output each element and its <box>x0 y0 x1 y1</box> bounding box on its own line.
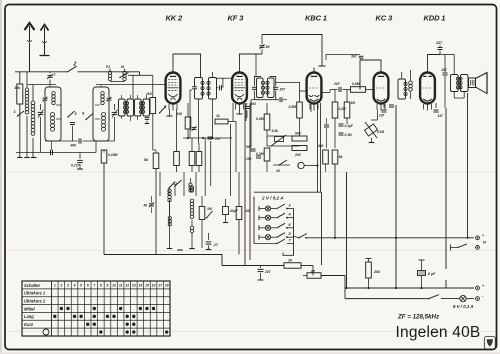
C circle symbol <box>298 162 304 168</box>
switch under M <box>120 73 129 78</box>
BF2 trimmer on edge <box>107 98 112 101</box>
small transformer TS1 form b <box>127 99 134 116</box>
svg-text:ZF = 128,5kHz: ZF = 128,5kHz <box>397 314 440 321</box>
resistor r4 under mixer <box>189 152 195 166</box>
wire x210.7 down <box>210 141 212 186</box>
rail drops to y152.5 <box>51 141 53 150</box>
svg-text:207: 207 <box>264 270 272 274</box>
svg-text:8: 8 <box>100 284 102 288</box>
output transformer T4 coil b <box>461 75 469 92</box>
panel lamp 8 <box>258 235 260 240</box>
IF transformer T2 bobbin b <box>268 78 275 98</box>
resistor 200 <box>292 146 307 151</box>
resistor 5k kc3 <box>332 150 338 164</box>
terminal plus <box>476 286 480 290</box>
tube KF3 <box>232 73 247 104</box>
wire y75.3 <box>128 74 153 76</box>
svg-text:337: 337 <box>436 41 443 45</box>
cap 137 kdd <box>435 103 437 108</box>
anode wire KK2 <box>173 54 201 78</box>
resistor 5k left <box>153 153 159 169</box>
small coil bottom <box>189 183 192 186</box>
svg-text:18: 18 <box>165 284 169 288</box>
long wire x346.5 <box>346 172 348 288</box>
switch S10 <box>273 164 290 166</box>
coupling transformer T3 coil a <box>398 79 406 99</box>
svg-text:Kurz: Kurz <box>24 322 34 327</box>
svg-text:KDD 1: KDD 1 <box>424 14 446 23</box>
svg-text:12: 12 <box>125 284 129 288</box>
svg-text:600: 600 <box>295 132 301 136</box>
antenna A1 <box>29 26 31 72</box>
resistor 1M kc3 <box>344 102 350 118</box>
caps 500 100 <box>251 148 256 150</box>
resistor r5 under mixer <box>196 152 202 166</box>
resistor 1k5 with switch S5 <box>152 75 154 97</box>
resistor 600 <box>292 136 307 141</box>
wire x236 from 1k <box>235 122 237 173</box>
terminal N <box>476 236 480 240</box>
heater wire xb <box>249 103 251 155</box>
osc vertical feeds <box>183 172 185 196</box>
T1 cap right <box>219 85 221 90</box>
T2 down leads <box>250 100 252 147</box>
tube KDD1 <box>420 73 435 104</box>
band switch table <box>22 281 170 336</box>
IF transformer T1 coil a <box>195 78 203 100</box>
resistor 0,15M <box>103 150 105 153</box>
svg-text:9: 9 <box>107 284 109 288</box>
KF3 cathode lead bar <box>239 110 241 115</box>
svg-text:1M: 1M <box>207 207 212 211</box>
anode wire KF3 <box>240 54 263 68</box>
svg-text:207: 207 <box>441 68 448 72</box>
svg-text:0,2M: 0,2M <box>256 152 264 156</box>
svg-text:16: 16 <box>152 284 156 288</box>
BF1 tap wires <box>56 104 61 106</box>
svg-text:Schalter: Schalter <box>24 283 41 288</box>
switch row y247.4 <box>450 245 452 251</box>
svg-text:0,1M: 0,1M <box>377 130 384 134</box>
BF1 winding upper <box>52 92 56 96</box>
coupling coil L2 <box>32 85 34 102</box>
T2 right loop with cap <box>270 76 276 86</box>
cap 207 kdd <box>443 72 448 74</box>
junction row y138 <box>187 137 189 139</box>
svg-text:46: 46 <box>143 204 148 208</box>
cap 0,1 kbc right <box>324 124 329 126</box>
ground under L1 <box>24 157 30 159</box>
cap 0,27 osc <box>208 233 210 240</box>
wire y78.2 to KF3 <box>217 77 232 79</box>
cap 137 kc3 <box>383 103 385 108</box>
panel lamp 4 <box>258 215 260 220</box>
scan fold line 3 <box>5 330 496 332</box>
T4 bottom leads <box>453 92 455 99</box>
wire kbc grid <box>300 90 307 92</box>
svg-text:4: 4 <box>73 284 76 288</box>
caps stack kc3 <box>339 123 344 125</box>
T1 cap left <box>193 86 197 89</box>
wire x230.5 down <box>230 124 232 196</box>
cap 0,727 <box>79 153 81 159</box>
svg-text:10: 10 <box>288 259 292 263</box>
cap 100 kf3 <box>245 106 250 108</box>
lamp panel collector <box>293 209 295 249</box>
svg-text:KBC 1: KBC 1 <box>305 14 327 23</box>
svg-text:6,5k: 6,5k <box>272 129 280 133</box>
svg-text:0,2M: 0,2M <box>339 107 346 111</box>
svg-text:137: 137 <box>438 114 444 118</box>
svg-text:10: 10 <box>276 169 280 173</box>
trimmer to ground small <box>145 117 150 119</box>
svg-text:KC 3: KC 3 <box>376 14 393 23</box>
rail y237.8 to N terminal <box>306 237 474 239</box>
switch S12 <box>169 182 175 189</box>
svg-text:KF 3: KF 3 <box>228 14 245 23</box>
vertical wire x245 <box>244 155 246 265</box>
svg-text:Ingelen 40B: Ingelen 40B <box>396 324 481 341</box>
svg-text:10k: 10k <box>14 86 21 90</box>
svg-text:Mittel: Mittel <box>24 306 36 311</box>
small transformer TS2 form b <box>143 99 150 116</box>
svg-text:2: 2 <box>59 284 62 288</box>
wire mixer grid <box>96 84 165 86</box>
svg-text:11: 11 <box>119 284 123 288</box>
resistor r3 under mixer <box>174 152 180 166</box>
svg-text:2 V / 0,2 A: 2 V / 0,2 A <box>261 196 284 201</box>
osc resistor 0,5M <box>199 207 205 220</box>
svg-text:0,1M: 0,1M <box>345 133 352 137</box>
IF transformer T2 bobbin a <box>257 78 264 98</box>
resistor 0,5M horizontal <box>351 87 366 93</box>
KC3 pot feed wire <box>377 110 379 121</box>
long wire x396 <box>395 105 397 288</box>
svg-text:10: 10 <box>112 284 116 288</box>
resistor 400 <box>323 150 329 164</box>
terminal minus <box>476 297 480 301</box>
coupling transformer T3 coil b <box>409 81 413 85</box>
svg-text:0,15M: 0,15M <box>108 153 118 157</box>
svg-text:+: + <box>482 284 484 288</box>
vertical wire x250 <box>249 155 251 260</box>
svg-text:100: 100 <box>177 112 183 116</box>
band filter BF1 loop <box>45 87 61 141</box>
rail junction dots <box>345 287 347 289</box>
cap 200 psu mid <box>260 266 262 268</box>
panel switch 7 <box>254 243 277 245</box>
resistor 80 psu <box>312 266 314 276</box>
potentiometer 0,1M kc3 <box>364 124 377 136</box>
svg-text:80: 80 <box>311 270 315 274</box>
resistor k under KK2 <box>187 103 189 117</box>
svg-text:8 V / 0,1 A: 8 V / 0,1 A <box>453 304 474 309</box>
cap right kc3 <box>389 104 394 106</box>
long wire x360 <box>359 60 361 90</box>
T2 bottom rail <box>254 99 279 101</box>
switch S1 <box>18 111 25 116</box>
variable capacitor C2 <box>114 104 116 110</box>
resistor 10 psu <box>222 265 284 267</box>
panel bottom hook <box>283 248 294 255</box>
svg-text:207: 207 <box>279 88 287 92</box>
svg-text:207: 207 <box>333 82 341 86</box>
filter bottom rail y141 <box>45 140 78 142</box>
antenna coil L1 <box>26 72 28 88</box>
wires kbc mesh <box>267 145 300 147</box>
cap on bottom wire <box>50 150 52 155</box>
svg-text:207: 207 <box>214 137 222 141</box>
resistor 0,5M kbc <box>297 102 303 118</box>
tube KK2 <box>166 73 181 104</box>
anode wire KDD1 <box>428 55 441 68</box>
small transformer TS1 form a <box>119 99 126 116</box>
cap 207 mixer <box>208 136 213 138</box>
wire top kbc <box>262 35 322 67</box>
svg-text:0,2M: 0,2M <box>256 117 264 121</box>
svg-text:Ultrakurz 1: Ultrakurz 1 <box>24 291 46 296</box>
svg-text:1: 1 <box>54 284 56 288</box>
svg-text:40μF: 40μF <box>229 209 239 213</box>
lamp panel frame wires <box>253 197 255 244</box>
IF transformer T1 coil b <box>209 78 217 100</box>
small transformer TS2 form a <box>135 99 142 116</box>
BF1 winding lower <box>51 113 55 117</box>
resistor 0,2M a <box>264 114 270 130</box>
resistor 10k <box>19 72 21 84</box>
panel right switch <box>294 236 300 238</box>
heater wire xa <box>244 103 246 155</box>
panel lamp 6 <box>258 225 260 230</box>
capacitor 8uF <box>421 260 423 270</box>
svg-text:0,5M: 0,5M <box>289 105 297 109</box>
switch S2 <box>68 66 77 72</box>
ground under 10k <box>17 157 23 159</box>
long wire x467 <box>467 93 469 238</box>
kbc vertical wires <box>317 103 319 192</box>
osc coil chain 2 <box>190 186 193 189</box>
svg-text:200: 200 <box>294 153 301 157</box>
rail y298.6 minus <box>344 288 346 299</box>
resistor 200 psu <box>368 259 370 263</box>
svg-text:400: 400 <box>70 144 77 148</box>
switch S5 blade <box>160 106 167 113</box>
top bus wire <box>15 71 67 73</box>
svg-text:50: 50 <box>266 45 270 49</box>
resistor 0,2M b <box>264 148 270 161</box>
speaker <box>469 78 476 88</box>
band filter BF2 loop <box>93 87 109 141</box>
svg-text:0,5M: 0,5M <box>352 82 360 86</box>
oscillator switch S11 <box>175 180 182 186</box>
svg-text:8 μF: 8 μF <box>428 272 436 276</box>
switch S4 <box>86 114 93 120</box>
resistor 100 osc <box>236 207 242 220</box>
svg-text:1M: 1M <box>351 101 356 105</box>
BF1 trimmer on edge <box>43 98 48 101</box>
svg-text:N: N <box>483 240 486 245</box>
svg-text:Lang: Lang <box>24 314 34 319</box>
svg-text:100: 100 <box>251 102 257 106</box>
scan fold line 2 <box>5 250 496 252</box>
electrolytic 40uF <box>223 207 229 215</box>
wire bus corner down <box>139 72 141 76</box>
wire horiz 84.5 <box>27 84 56 86</box>
variable capacitor C1 <box>40 104 42 110</box>
antenna A2 <box>44 27 46 56</box>
svg-text:13: 13 <box>132 284 136 288</box>
svg-text:15: 15 <box>145 284 149 288</box>
long wire x446 <box>445 108 447 269</box>
svg-text:1k5: 1k5 <box>146 92 152 96</box>
bottom wire y152.5 <box>16 152 96 154</box>
panel lamp 2 <box>258 206 260 211</box>
svg-text:500: 500 <box>246 145 252 149</box>
scan fold line 1 <box>5 171 496 173</box>
BF2 winding upper <box>101 92 105 96</box>
osc coil chain 1 <box>168 189 171 192</box>
svg-text:Ultrakurz 2: Ultrakurz 2 <box>24 299 46 304</box>
svg-text:0,1μF: 0,1μF <box>345 124 354 128</box>
svg-text:F2: F2 <box>106 65 110 69</box>
wire x133 <box>132 75 134 99</box>
resistor 1k horizontal <box>215 119 228 124</box>
trimmer 50 <box>261 49 263 54</box>
svg-text:200: 200 <box>373 270 380 274</box>
rail y288 plus <box>345 287 474 289</box>
wire y54 right <box>326 54 360 56</box>
small trimmer mixer <box>192 127 197 129</box>
svg-text:100: 100 <box>246 157 252 161</box>
ground 0,727 <box>77 168 83 170</box>
wire x205 down <box>204 138 206 196</box>
T1 bottom leads <box>198 99 200 143</box>
dial lamp <box>460 295 466 301</box>
T2 grid wire right <box>276 81 294 83</box>
anode wire KC3 up <box>360 60 381 68</box>
svg-text:+: + <box>482 234 484 238</box>
wire KF3 cathode <box>232 103 234 121</box>
svg-text:3: 3 <box>67 284 69 288</box>
svg-text:137: 137 <box>379 114 385 118</box>
svg-text:0,727: 0,727 <box>71 164 81 168</box>
resistor 0,2M kc3 <box>332 102 338 118</box>
mid cap to ground <box>70 122 75 124</box>
tube KC3 <box>374 73 389 104</box>
tube KBC1 <box>307 73 322 104</box>
osc switch 1M <box>207 211 213 218</box>
svg-text:2: 2 <box>73 62 77 68</box>
ground under L2 <box>31 157 37 159</box>
T2 left loop with cap <box>254 76 261 86</box>
output transformer T4 coil a <box>451 75 459 92</box>
bus B1 y254.5 <box>104 255 222 266</box>
trimmer C-a <box>49 72 51 74</box>
osc grounds <box>167 248 173 250</box>
svg-text:KK 2: KK 2 <box>166 14 183 23</box>
cap 46 bottom <box>159 172 161 196</box>
long wire from 0,15M down <box>103 163 105 255</box>
BF2 tap wires <box>95 104 100 106</box>
svg-text:M: M <box>121 65 124 69</box>
svg-text:6: 6 <box>87 284 89 288</box>
maker logo shield <box>484 337 495 350</box>
BF2 winding lower <box>102 113 106 117</box>
cap 207 kc3 <box>338 87 340 92</box>
svg-text:5: 5 <box>80 284 82 288</box>
switch S3 blade <box>68 111 75 117</box>
svg-text:14: 14 <box>138 284 142 288</box>
svg-text:400: 400 <box>317 144 324 148</box>
terminal 2 <box>476 246 480 250</box>
